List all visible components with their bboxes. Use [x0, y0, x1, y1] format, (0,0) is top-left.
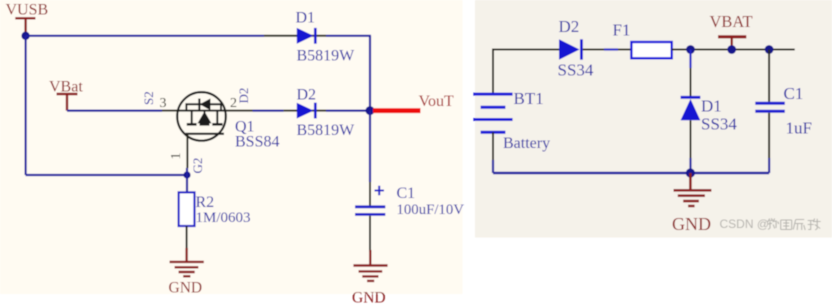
value label SS34 of D1: [701, 115, 737, 134]
svg-text:D2: D2: [297, 87, 317, 104]
left schematic panel background: [0, 0, 463, 294]
junction node at GND right: [686, 168, 695, 177]
value label BSS84: [235, 134, 279, 151]
wire VouT node down to C1: [369, 111, 371, 182]
svg-text:GND: GND: [169, 280, 203, 297]
diode D1: [297, 28, 316, 44]
svg-text:B5819W: B5819W: [297, 122, 356, 139]
right schematic panel background: [475, 0, 832, 238]
value label Battery: [503, 135, 550, 152]
net label VBat: [49, 79, 83, 96]
net label VouT: [419, 93, 454, 110]
ground symbol right panel: [674, 173, 712, 206]
svg-text:SS34: SS34: [701, 115, 737, 134]
wire D2 cathode to F1 (black with blue segment): [583, 49, 632, 51]
svg-text:D1: D1: [701, 97, 722, 116]
value label 1M/0603: [196, 210, 251, 226]
pin 2 wire of Q1 (black): [226, 110, 253, 112]
net wire VouT (thick red): [373, 108, 421, 113]
power port VBat bar: [57, 94, 78, 111]
svg-text:1uF: 1uF: [786, 119, 812, 138]
value label B5819W of D1: [297, 48, 356, 65]
wire right vertical down to VouT node: [369, 36, 371, 111]
wire C1 down to bottom rail: [768, 113, 770, 173]
svg-text:C1: C1: [784, 84, 804, 103]
pin wire below R2 (black): [186, 226, 188, 250]
wire junction down to C1 right panel: [768, 50, 770, 102]
svg-text:3: 3: [160, 96, 167, 111]
svg-text:1: 1: [169, 153, 184, 160]
wire D1 down to bottom rail: [690, 120, 692, 173]
wire F1 to right end (black): [672, 49, 795, 51]
value label 100uF/10V: [397, 202, 465, 218]
svg-text:SS34: SS34: [558, 61, 594, 80]
watermark CSDN: [720, 217, 770, 231]
capacitor C1 (polarized): [355, 207, 385, 215]
svg-text:R2: R2: [196, 194, 215, 211]
wire D1 to right corner: [326, 35, 371, 37]
svg-text:1M/0603: 1M/0603: [196, 210, 251, 226]
svg-text:BSS84: BSS84: [235, 134, 279, 151]
pin 2 number label: [230, 96, 237, 111]
wire bottom rail (navy): [493, 172, 769, 174]
power port VUSB bar: [15, 18, 35, 36]
ground label GND below C1: [352, 290, 386, 305]
power port VBAT: [718, 37, 746, 50]
label D2 right panel: [559, 17, 580, 36]
svg-text:BT1: BT1: [514, 89, 544, 108]
ground symbol below R2: [170, 248, 204, 276]
svg-text:VouT: VouT: [419, 93, 454, 110]
svg-text:D2: D2: [236, 88, 251, 104]
svg-text:VUSB: VUSB: [6, 2, 49, 19]
pin wire above C1 (black): [369, 182, 371, 206]
svg-text:B5819W: B5819W: [297, 48, 356, 65]
pin 1 number label (rotated): [169, 153, 184, 160]
pin 1 wire of Q1 gate (black): [186, 134, 188, 168]
svg-text:Battery: Battery: [503, 135, 550, 152]
svg-text:S2: S2: [141, 91, 156, 105]
fuse F1: [631, 42, 671, 58]
value label SS34 of D2: [558, 61, 594, 80]
svg-text:D2: D2: [559, 17, 580, 36]
pin name G2 label (rotated): [190, 158, 205, 174]
junction node at VBAT: [727, 45, 736, 54]
ground symbol below C1: [353, 250, 387, 281]
pin wire below C1 (black): [369, 216, 371, 252]
pin name S2 label: [141, 91, 156, 105]
svg-text:F1: F1: [613, 21, 631, 40]
net label VBAT: [710, 12, 753, 31]
label R2: [196, 194, 215, 211]
label D1: [296, 10, 316, 27]
battery BT1 plates: [473, 94, 512, 132]
diode D2 right panel: [559, 39, 581, 59]
svg-text:GND: GND: [352, 290, 386, 305]
wire VUSB horizontal to D1: [26, 35, 264, 37]
wire left vertical VUSB down: [25, 36, 27, 175]
pin wire of D1 (black): [264, 35, 326, 37]
capacitor C1 plus sign: [375, 186, 385, 196]
junction node at C1 branch: [765, 45, 774, 54]
label Q1: [235, 119, 255, 136]
wire VBat to Q1 pin 3: [67, 109, 162, 111]
junction node at gate: [183, 171, 190, 178]
junction node VouT: [366, 106, 375, 115]
pin 3 wire of Q1 (black): [162, 110, 178, 112]
wire Q1 to D2: [253, 109, 284, 111]
wire gate to R2: [186, 168, 188, 192]
svg-text:C1: C1: [397, 185, 416, 202]
svg-text:VBAT: VBAT: [710, 12, 753, 31]
ground label GND right: [672, 214, 711, 234]
svg-text:CSDN @: CSDN @: [720, 217, 770, 231]
wire D2 to VouT node: [326, 109, 366, 111]
battery BT1 wire top (black): [493, 50, 559, 95]
label C1 left panel: [397, 185, 416, 202]
svg-text:D1: D1: [296, 10, 316, 27]
junction node at VUSB: [21, 32, 29, 40]
junction node at D1 branch: [686, 45, 695, 54]
pin wire of D2 (black): [284, 110, 326, 112]
svg-text:G2: G2: [190, 158, 205, 174]
pin name D2 label: [236, 88, 251, 104]
capacitor C1 right panel: [755, 103, 785, 111]
svg-text:100uF/10V: 100uF/10V: [397, 202, 465, 218]
label D2: [297, 87, 317, 104]
label F1: [613, 21, 631, 40]
pin 3 number label: [160, 96, 167, 111]
wire bottom horizontal to gate: [26, 174, 187, 176]
ground label GND left: [169, 280, 203, 297]
label C1 right panel: [784, 84, 804, 103]
battery BT1 wire bottom (black): [492, 132, 494, 173]
net label VUSB: [6, 2, 49, 19]
label BT1: [514, 89, 544, 108]
value label B5819W of D2: [297, 122, 356, 139]
svg-text:GND: GND: [672, 214, 711, 234]
watermark chinese characters: [768, 218, 821, 230]
wire junction down to D1: [690, 50, 692, 97]
resistor R2: [179, 192, 195, 226]
transistor Q1 (PMOS BSS84): [177, 92, 226, 141]
label D1 right panel: [701, 97, 722, 116]
value label 1uF: [786, 119, 812, 138]
diode D2: [297, 103, 316, 119]
diode D1 right panel (pointing up): [681, 97, 701, 120]
